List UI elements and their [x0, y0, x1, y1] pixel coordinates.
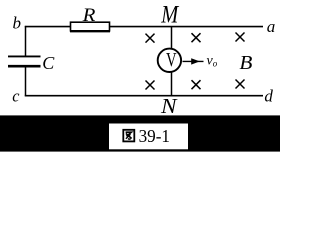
velocity arrow line: [183, 60, 204, 62]
wire b down to capacitor (left vertical upper): [25, 26, 27, 56]
resistor R: [70, 22, 110, 31]
svg-text:a: a: [267, 17, 276, 36]
caption black band: [0, 115, 280, 151]
field cross x3 (top row right): [236, 33, 245, 42]
svg-text:o: o: [213, 59, 218, 69]
bottom wire c to d: [25, 95, 263, 97]
caption white box: [109, 123, 189, 150]
field cross x6 (bottom row right): [236, 80, 245, 89]
wire resistor to a (top right horizontal): [110, 26, 264, 28]
velocity arrowhead: [191, 58, 200, 64]
voltmeter U1 circle: [158, 49, 181, 72]
velocity label v0: [207, 54, 218, 69]
field cross x4 (bottom row left): [146, 81, 155, 90]
svg-text:C: C: [42, 53, 55, 73]
caption glyph 图: [123, 130, 134, 142]
svg-text:V: V: [166, 50, 177, 71]
svg-text:c: c: [12, 87, 20, 106]
svg-text:M: M: [160, 2, 179, 29]
field cross x2 (top row middle): [192, 33, 201, 42]
svg-text:d: d: [264, 87, 273, 106]
wire voltmeter down to N: [171, 72, 173, 96]
svg-text:39-1: 39-1: [139, 126, 170, 146]
wire M down to voltmeter: [171, 26, 173, 48]
field cross x1 (top row left): [146, 34, 155, 43]
wire b to resistor (top left horizontal): [25, 26, 71, 28]
svg-text:B: B: [239, 52, 252, 74]
wire capacitor down to c (left vertical lower): [25, 67, 27, 96]
capacitor C: [8, 56, 41, 66]
svg-text:R: R: [81, 6, 95, 26]
field cross x5 (bottom row middle): [192, 80, 201, 89]
svg-text:b: b: [13, 14, 22, 33]
svg-text:N: N: [160, 94, 178, 118]
